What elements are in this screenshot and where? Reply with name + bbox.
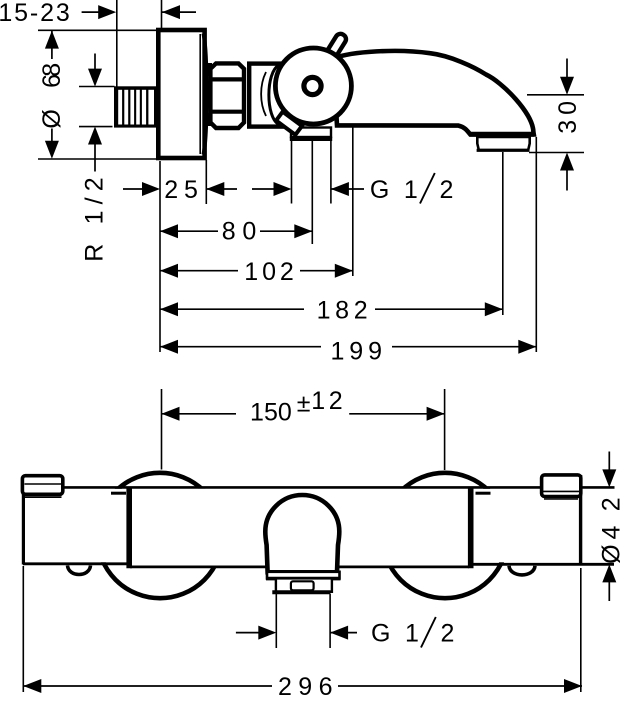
svg-text:±: ±: [297, 390, 311, 418]
svg-text:G: G: [370, 176, 389, 204]
svg-text:102: 102: [244, 258, 293, 286]
svg-text:182: 182: [317, 297, 368, 325]
svg-text:199: 199: [331, 338, 383, 366]
svg-text:1: 1: [405, 620, 419, 648]
svg-text:296: 296: [278, 673, 333, 701]
svg-text:2: 2: [440, 176, 454, 204]
svg-text:68: 68: [38, 63, 66, 88]
svg-text:1: 1: [404, 176, 418, 204]
svg-text:Ø: Ø: [38, 109, 66, 128]
svg-text:15-23: 15-23: [0, 0, 70, 27]
svg-text:150: 150: [250, 399, 292, 427]
svg-text:Ø: Ø: [598, 544, 624, 563]
svg-text:2: 2: [441, 620, 455, 648]
svg-text:G: G: [371, 620, 390, 648]
svg-text:R 1/2: R 1/2: [80, 177, 108, 261]
